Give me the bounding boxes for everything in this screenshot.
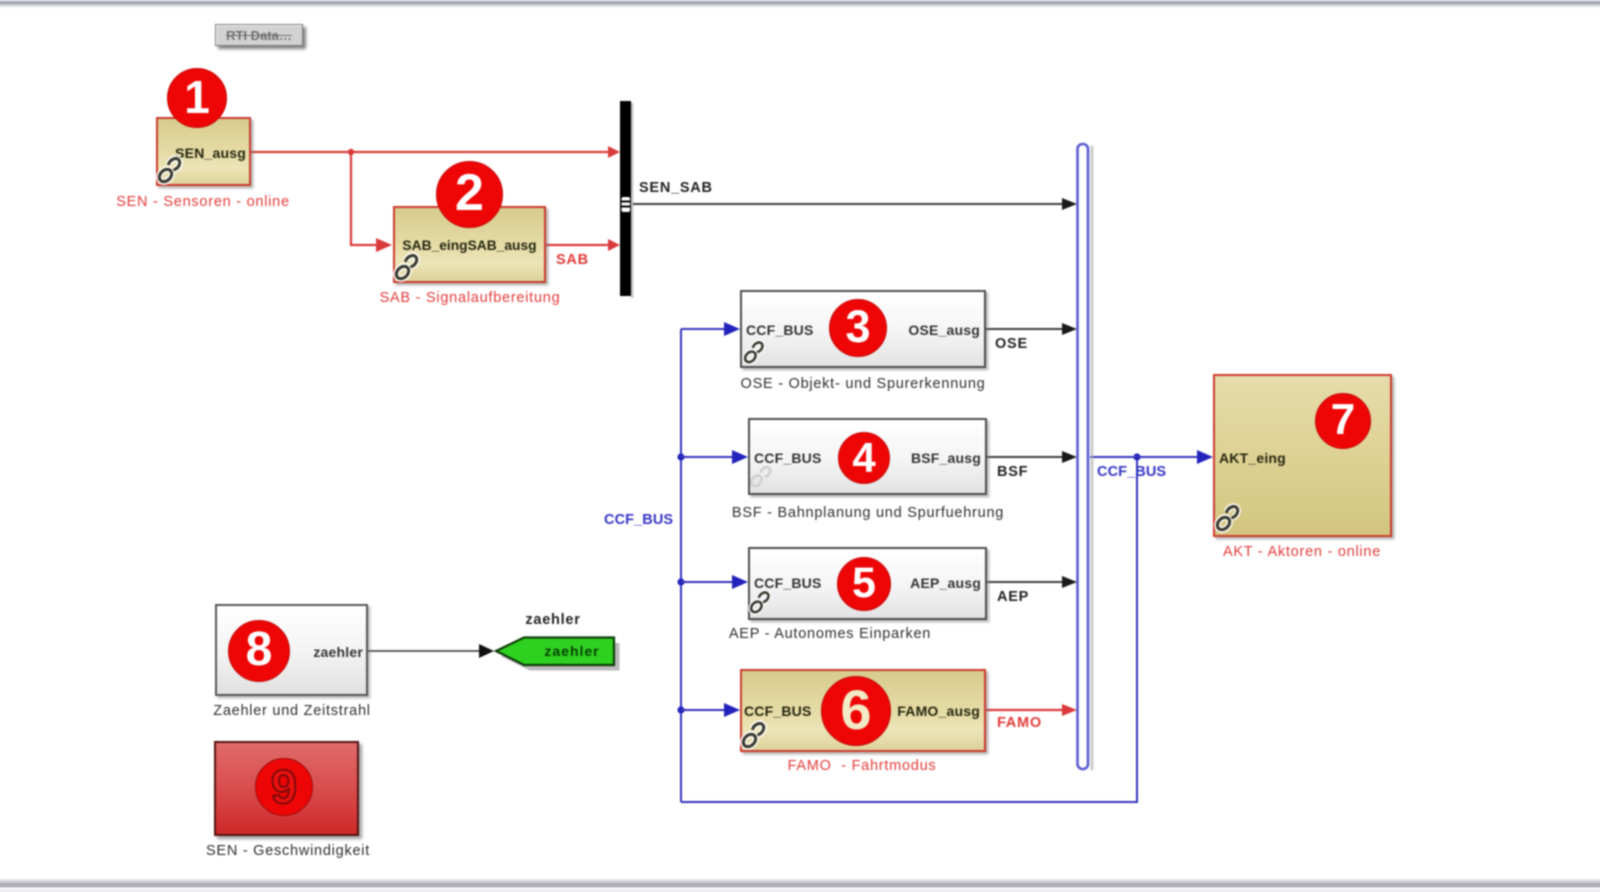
node junction on red wire	[348, 149, 354, 155]
chain icon OSE block	[743, 341, 764, 365]
wire red FAMO output to bus	[986, 709, 1066, 711]
wire zaehler to tag	[368, 650, 481, 652]
node junction BSF branch	[677, 453, 684, 460]
label SEN_SAB	[639, 180, 713, 196]
wire SEN_SAB to bus	[633, 203, 1066, 205]
arrow blue into OSE	[724, 322, 740, 336]
block AKT	[1213, 374, 1392, 537]
block OSE	[740, 290, 986, 368]
node junction AEP branch	[677, 578, 684, 585]
block FAMO	[740, 669, 986, 752]
label AEP	[997, 589, 1029, 605]
label FAMO	[997, 715, 1042, 731]
goto tag zaehler green	[502, 643, 620, 671]
caption SAB - Signalaufbereitung	[370, 290, 570, 306]
chain icon AKT block	[1215, 504, 1240, 532]
wire blue to AEP input	[681, 581, 734, 583]
arrow red into SAB	[376, 238, 392, 252]
badge 9	[255, 758, 313, 816]
caption SEN - Geschwindigkeit	[188, 843, 388, 859]
caption BSF	[728, 505, 1008, 521]
label CCF_BUS right	[1097, 464, 1166, 480]
mux black bar	[620, 101, 631, 296]
block SAB	[393, 206, 546, 283]
wire BSF output to bus	[987, 456, 1066, 458]
wire OSE output to bus	[986, 328, 1066, 330]
label zaehler above tag	[503, 612, 603, 628]
RTI Data button	[215, 24, 303, 46]
wire blue to FAMO input	[681, 709, 726, 711]
arrow red into mux bottom	[608, 239, 620, 251]
bus creator vertical bar	[1091, 146, 1094, 771]
node junction feedback top	[1133, 453, 1140, 460]
badge 2	[436, 161, 503, 228]
caption AEP	[710, 626, 950, 642]
wire blue to OSE input	[681, 328, 726, 330]
wire AEP output to bus	[987, 581, 1066, 583]
label SAB	[556, 252, 589, 268]
badge 4	[838, 432, 890, 484]
label BSF	[997, 464, 1028, 480]
wire red SAB output to mux	[546, 244, 613, 246]
badge 6	[821, 676, 891, 746]
block BSF	[748, 418, 987, 495]
badge 1	[167, 68, 227, 128]
chain icon FAMO block	[741, 721, 766, 749]
arrow blue into AKT	[1197, 450, 1213, 464]
block SEN_ausg	[156, 117, 251, 186]
chain icon broken BSF block	[749, 465, 772, 488]
arrow blue into FAMO	[724, 703, 740, 717]
block Zaehler	[215, 604, 368, 696]
wire blue feedback bottom	[681, 457, 1137, 802]
badge 5	[837, 557, 891, 611]
mux bar icon	[622, 197, 631, 212]
top window frame strip	[0, 0, 1600, 9]
block SEN Geschwindigkeit	[214, 741, 359, 836]
badge 7	[1315, 393, 1371, 449]
arrow SEN_SAB into bus	[1062, 198, 1077, 210]
arrow blue into AEP	[732, 575, 748, 589]
wire blue bus output CCF_BUS to AKT	[1090, 456, 1199, 458]
bottom window frame strip	[0, 878, 1600, 892]
arrow red into mux top	[608, 146, 620, 158]
wire blue to BSF input	[681, 456, 734, 458]
arrow blue into BSF	[732, 450, 748, 464]
caption FAMO	[762, 758, 962, 774]
wire blue CCF_BUS vertical distribution	[680, 329, 682, 802]
arrow into tag	[479, 644, 494, 658]
badge 8	[228, 620, 290, 682]
caption AKT	[1202, 544, 1402, 560]
caption Zaehler und Zeitstrahl	[192, 703, 392, 719]
chain icon SAB block	[394, 253, 419, 281]
arrow AEP into bus	[1062, 576, 1077, 588]
arrow red FAMO into bus	[1062, 704, 1077, 716]
caption OSE	[733, 376, 993, 392]
chain icon SEN block	[157, 156, 182, 184]
arrow BSF into bus	[1062, 451, 1077, 463]
badge 3	[829, 299, 887, 357]
arrow OSE into bus	[1062, 323, 1077, 335]
label OSE	[995, 336, 1028, 352]
label CCF_BUS left	[604, 512, 673, 528]
caption SEN - Sensoren - online	[103, 194, 303, 210]
node junction FAMO branch	[677, 706, 684, 713]
chain icon AEP block	[749, 591, 770, 615]
block AEP	[748, 547, 987, 620]
wire red branch down to SAB input	[351, 152, 378, 245]
wire red SEN_ausg to mux	[251, 151, 613, 153]
